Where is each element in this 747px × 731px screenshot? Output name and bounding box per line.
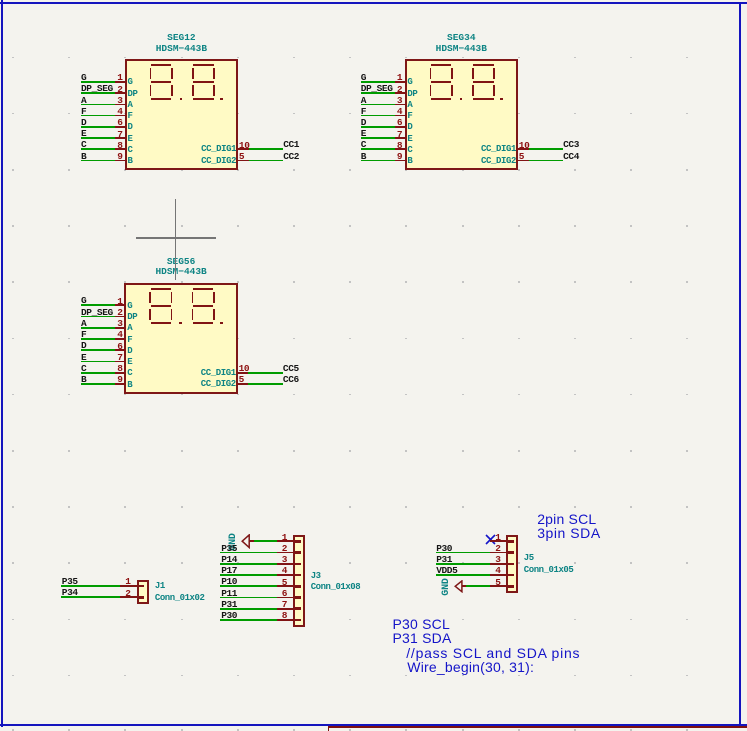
pin notch graphic pin 6 of J3 [295, 596, 301, 599]
pin number 6 [97, 342, 123, 351]
digit 2 seven-segment graphic [0, 0, 1, 1]
wire net P34 to J1 pin 2 [61, 596, 120, 598]
symbol body rectangle SEG56 [124, 283, 237, 395]
pin number 2 [261, 544, 287, 553]
pin 4 of J5 [490, 574, 508, 576]
pin name DP [127, 313, 137, 322]
pin name E [128, 135, 133, 144]
reference text J5 [524, 554, 534, 563]
7-segment display SEG56 (U3) value HDSM-443B [0, 0, 1, 1]
pin number 1 [97, 73, 123, 82]
note text "P31 SDA" [393, 631, 452, 645]
pin 1 of J5 [490, 540, 508, 542]
pin 5 of J3 [277, 585, 296, 587]
pin number 2 [376, 85, 402, 94]
net label P35 [221, 544, 237, 553]
reference text SEG56 [125, 257, 237, 266]
pin 9 of SEG56 [115, 383, 126, 385]
pin 1 of SEG56 [115, 304, 126, 306]
symbol body rectangle SEG34 [405, 59, 518, 171]
pin 9 of SEG12 [115, 160, 126, 162]
pin name B [128, 157, 133, 166]
wire net DP_SEG to SEG56 pin 2 [81, 316, 115, 318]
net label E [361, 129, 366, 138]
wire net B to SEG12 pin 9 [81, 160, 115, 162]
pin name B [407, 157, 412, 166]
wire net C to SEG12 pin 8 [81, 148, 115, 150]
pin number 3 [261, 555, 287, 564]
pin number 7 [261, 600, 287, 609]
pin name F [128, 112, 133, 121]
pin name DP [128, 90, 138, 99]
wire net A to SEG56 pin 3 [81, 327, 115, 329]
pin 3 of SEG12 [115, 104, 126, 106]
net label CC2 [283, 152, 299, 161]
pin number 5 [475, 578, 501, 587]
pin notch graphic pin 3 of J3 [295, 563, 301, 566]
wire stub from GND label [249, 540, 254, 542]
pin number 9 [376, 152, 402, 161]
value text HDSM-443B [405, 44, 517, 53]
net label P35 [62, 577, 78, 586]
pin number 8 [97, 364, 123, 373]
wire net P11 to J3 pin 6 [220, 597, 277, 599]
adjacent sheet frame left edge (dark red) [328, 726, 330, 731]
connector J5 (Conn_01x05) symbol body [506, 535, 518, 593]
pin number 3 [376, 96, 402, 105]
pin 10 of SEG34 [516, 148, 529, 150]
pin name B [127, 381, 132, 390]
wire net A to SEG34 pin 3 [361, 104, 395, 106]
pin 2 of J5 [490, 552, 508, 554]
pin name C [407, 146, 412, 155]
net label G [361, 73, 366, 82]
wire net E to SEG12 pin 7 [81, 137, 115, 139]
decimal point 2 [220, 98, 223, 101]
pin name CC_DIG2 [176, 157, 236, 166]
pin notch graphic pin 2 of J5 [508, 551, 514, 554]
pin 7 of SEG56 [115, 361, 126, 363]
pin name G [127, 302, 132, 311]
value text HDSM-443B [125, 267, 237, 276]
net label F [361, 107, 366, 116]
pin notch graphic pin 4 of J3 [295, 574, 301, 577]
pin number 8 [376, 141, 402, 150]
reference text SEG34 [405, 33, 517, 42]
pin number 5 [239, 375, 244, 384]
wire net E to SEG34 pin 7 [361, 137, 395, 139]
pin 6 of SEG34 [395, 126, 407, 128]
digit 1 seven-segment graphic [0, 0, 1, 1]
pin notch graphic pin 5 of J3 [295, 585, 301, 588]
pin number 3 [97, 319, 123, 328]
connector J5 group [0, 0, 1, 1]
pin number 1 [261, 533, 287, 542]
pin number 7 [376, 130, 402, 139]
wire net P10 to J3 pin 5 [220, 585, 277, 587]
wire net F to SEG12 pin 4 [81, 115, 115, 117]
pin 8 of SEG56 [115, 372, 126, 374]
pin number 10 [239, 364, 250, 373]
pin number 10 [519, 141, 530, 150]
net label CC6 [283, 375, 299, 384]
net label P10 [221, 577, 237, 586]
pin number 1 [105, 577, 131, 586]
net label P17 [221, 566, 237, 575]
net label P31 [221, 600, 237, 609]
pin name CC_DIG2 [456, 157, 516, 166]
pin number 1 [475, 533, 501, 542]
pin notch graphic pin 3 of J5 [508, 563, 514, 566]
pin number 9 [97, 375, 123, 384]
digit 1 seven-segment graphic [0, 0, 1, 1]
pin 9 of SEG34 [395, 160, 407, 162]
pin notch graphic pin 2 of J3 [295, 551, 301, 554]
pin 4 of SEG34 [395, 115, 407, 117]
drawing sheet border left [1, 0, 3, 727]
pin 7 of SEG12 [115, 137, 126, 139]
pin notch graphic pin 2 of J1 [138, 596, 144, 599]
pin 1 of SEG34 [395, 81, 407, 83]
pin number 7 [97, 130, 123, 139]
wire net B to SEG56 pin 9 [81, 383, 115, 385]
wire net CC2 from SEG12 pin 5 [249, 160, 284, 162]
note text "P30 SCL" [393, 617, 450, 631]
wire net F to SEG56 pin 4 [81, 338, 115, 340]
pin number 4 [97, 107, 123, 116]
wire net G to SEG56 pin 1 [81, 304, 115, 306]
net label F [81, 107, 86, 116]
note text "3pin SDA" [537, 526, 601, 540]
reference text J1 [155, 582, 165, 591]
pin 5 of SEG34 [516, 160, 529, 162]
pin 4 of SEG56 [115, 338, 126, 340]
note text "Wire_begin(30, 31):" [407, 660, 534, 674]
net label C [361, 140, 366, 149]
wire net VDD5 to J5 pin 4 [436, 574, 490, 576]
hierarchical label GND (vertical) on J5 pin 5 [442, 578, 452, 595]
pin 6 of SEG56 [115, 349, 126, 351]
net label A [81, 96, 86, 105]
wire net E to SEG56 pin 7 [81, 361, 115, 363]
pin number 5 [239, 152, 244, 161]
digit 2 seven-segment graphic [0, 0, 1, 1]
net label CC5 [283, 364, 299, 373]
wire net C to SEG56 pin 8 [81, 372, 115, 374]
pin name C [127, 369, 132, 378]
pin number 2 [97, 85, 123, 94]
pin 6 of SEG12 [115, 126, 126, 128]
wire net F to SEG34 pin 4 [361, 115, 395, 117]
wire net P30 to J3 pin 8 [220, 619, 277, 621]
wire net G to SEG34 pin 1 [361, 81, 395, 83]
drawing sheet border top [0, 2, 747, 4]
decimal point 2 [220, 322, 223, 325]
pin 2 of J3 [277, 552, 296, 554]
pin name D [127, 347, 132, 356]
wire net D to SEG56 pin 6 [81, 349, 115, 351]
pin name CC_DIG1 [176, 145, 236, 154]
wire net GND to J5 pin 5 [466, 585, 490, 587]
value text Conn_01x02 [155, 594, 205, 603]
adjacent sheet frame top edge (dark red) [328, 726, 747, 728]
pin number 8 [261, 611, 287, 620]
pin 8 of J3 [277, 619, 296, 621]
digit 1 seven-segment graphic [0, 0, 1, 1]
wire net D to SEG12 pin 6 [81, 126, 115, 128]
wire net CC6 from SEG56 pin 5 [248, 383, 283, 385]
pin name DP [407, 90, 417, 99]
no-connect X marker on J5 pin 1 [485, 534, 496, 545]
wire net P31 to J5 pin 3 [436, 563, 490, 565]
pin notch graphic pin 7 of J3 [295, 607, 301, 610]
pin number 2 [475, 544, 501, 553]
decimal point 1 [180, 98, 183, 101]
connector J3 group [0, 0, 1, 1]
wire net CC3 from SEG34 pin 10 [529, 148, 564, 150]
net label P30 [436, 544, 452, 553]
pin name E [407, 135, 412, 144]
pin number 4 [376, 107, 402, 116]
wire net P17 to J3 pin 4 [220, 574, 277, 576]
pin name F [127, 336, 132, 345]
wire stub from GND label [462, 585, 466, 587]
pin notch graphic pin 5 of J5 [508, 585, 514, 588]
pin number 5 [261, 578, 287, 587]
wire net CC1 from SEG12 pin 10 [249, 148, 284, 150]
net label P14 [221, 555, 237, 564]
pin name CC_DIG2 [176, 380, 236, 389]
pin 7 of J3 [277, 608, 296, 610]
pin 10 of SEG12 [236, 148, 249, 150]
pin 3 of SEG34 [395, 104, 407, 106]
pin 1 of J1 [120, 585, 139, 587]
net label DP_SEG [81, 308, 113, 317]
net label P30 [221, 611, 237, 620]
net label D [81, 341, 86, 350]
pin number 9 [97, 152, 123, 161]
hierarchical label GND arrow shape [454, 580, 468, 593]
pin number 2 [105, 589, 131, 598]
pin 5 of J5 [490, 585, 508, 587]
net label F [81, 330, 86, 339]
cursor crosshair vertical [175, 199, 176, 280]
pin 2 of J1 [120, 596, 139, 598]
net label P34 [62, 588, 78, 597]
drawing sheet border bottom [0, 724, 747, 726]
pin 5 of SEG12 [236, 160, 249, 162]
pin 8 of SEG12 [115, 148, 126, 150]
value text Conn_01x08 [311, 583, 361, 592]
wire net G to SEG12 pin 1 [81, 81, 115, 83]
wire net P31 to J3 pin 7 [220, 608, 277, 610]
pin notch graphic pin 1 of J5 [508, 540, 514, 543]
wire net A to SEG12 pin 3 [81, 104, 115, 106]
hierarchical label GND arrow shape [241, 534, 257, 549]
pin 7 of SEG34 [395, 137, 407, 139]
pin notch graphic pin 8 of J3 [295, 619, 301, 622]
pin number 3 [475, 555, 501, 564]
pin name E [127, 358, 132, 367]
wire net P35 to J1 pin 1 [61, 585, 120, 587]
wire net DP_SEG to SEG34 pin 2 [361, 92, 395, 94]
net label DP_SEG [81, 84, 113, 93]
wire net CC5 from SEG56 pin 10 [248, 372, 283, 374]
pin name G [128, 78, 133, 87]
connector J3 (Conn_01x08) symbol body [293, 535, 305, 627]
connector J1 (Conn_01x02) symbol body [137, 580, 149, 604]
net label P31 [436, 555, 452, 564]
pin name A [128, 101, 133, 110]
pin number 5 [519, 152, 524, 161]
pin 3 of J3 [277, 563, 296, 565]
pin number 4 [475, 566, 501, 575]
net label CC3 [563, 140, 579, 149]
wire net P35 to J3 pin 2 [220, 552, 277, 554]
pin 2 of SEG12 [115, 92, 126, 94]
pin number 6 [261, 589, 287, 598]
decimal point 1 [460, 98, 463, 101]
pin number 4 [261, 566, 287, 575]
pin 8 of SEG34 [395, 148, 407, 150]
pin 4 of J3 [277, 574, 296, 576]
net label C [81, 364, 86, 373]
net label P11 [221, 589, 237, 598]
pin number 1 [97, 297, 123, 306]
net label C [81, 140, 86, 149]
wire net D to SEG34 pin 6 [361, 126, 395, 128]
net label CC4 [563, 152, 579, 161]
wire net P14 to J3 pin 3 [220, 563, 277, 565]
pin name F [407, 112, 412, 121]
drawing sheet border right [739, 2, 741, 726]
note text "2pin SCL" [537, 512, 596, 526]
pin name A [127, 324, 132, 333]
net label B [361, 152, 366, 161]
pin number 6 [376, 118, 402, 127]
net label E [81, 129, 86, 138]
net label A [81, 319, 86, 328]
decimal point 2 [500, 98, 503, 101]
pin 5 of SEG56 [236, 383, 249, 385]
pin 4 of SEG12 [115, 115, 126, 117]
pin 1 of J3 [277, 540, 296, 542]
pin name CC_DIG1 [456, 145, 516, 154]
value text HDSM-443B [125, 44, 237, 53]
pin 10 of SEG56 [236, 372, 249, 374]
net label D [81, 118, 86, 127]
pin 3 of SEG56 [115, 327, 126, 329]
reference text J3 [311, 572, 321, 581]
pin notch graphic pin 1 of J1 [138, 585, 144, 588]
7-segment display SEG12 (U1) value HDSM-443B [0, 0, 1, 1]
reference text SEG12 [125, 33, 237, 42]
pin notch graphic pin 1 of J3 [295, 540, 301, 543]
pin name G [407, 78, 412, 87]
wire net GND to J3 pin 1 [254, 540, 277, 542]
cursor crosshair horizontal [136, 237, 216, 238]
pin number 10 [239, 141, 250, 150]
net label G [81, 296, 86, 305]
pin name A [407, 101, 412, 110]
wire net B to SEG34 pin 9 [361, 160, 395, 162]
pin number 6 [97, 118, 123, 127]
pin number 3 [97, 96, 123, 105]
net label E [81, 353, 86, 362]
pin number 8 [97, 141, 123, 150]
pin number 2 [97, 308, 123, 317]
wire net CC4 from SEG34 pin 5 [529, 160, 564, 162]
hierarchical label GND (vertical) [229, 533, 239, 550]
net label B [81, 152, 86, 161]
net label G [81, 73, 86, 82]
pin number 7 [97, 353, 123, 362]
value text Conn_01x05 [524, 566, 574, 575]
grid dots [0, 0, 1, 1]
pin number 1 [376, 73, 402, 82]
pin name D [128, 123, 133, 132]
pin 1 of SEG12 [115, 81, 126, 83]
net label VDD5 [436, 566, 457, 575]
net label D [361, 118, 366, 127]
pin 6 of J3 [277, 597, 296, 599]
pin 2 of SEG56 [115, 316, 126, 318]
net label B [81, 375, 86, 384]
pin name C [128, 146, 133, 155]
net label CC1 [283, 140, 299, 149]
wire net C to SEG34 pin 8 [361, 148, 395, 150]
pin name D [407, 123, 412, 132]
pin notch graphic pin 4 of J5 [508, 574, 514, 577]
pin 2 of SEG34 [395, 92, 407, 94]
net label DP_SEG [361, 84, 393, 93]
digit 2 seven-segment graphic [0, 0, 1, 1]
decimal point 1 [179, 322, 182, 325]
net label A [361, 96, 366, 105]
wire net P30 to J5 pin 2 [436, 552, 490, 554]
7-segment display SEG34 (U2) value HDSM-443B [0, 0, 1, 1]
connector J1 group [0, 0, 1, 1]
pin 3 of J5 [490, 563, 508, 565]
pin number 4 [97, 330, 123, 339]
note text "//pass SCL and SDA pins" [406, 646, 580, 660]
pin name CC_DIG1 [176, 369, 236, 378]
symbol body rectangle SEG12 [125, 59, 238, 171]
wire net DP_SEG to SEG12 pin 2 [81, 92, 115, 94]
